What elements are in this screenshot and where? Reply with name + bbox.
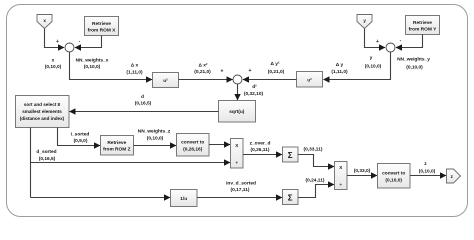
svg-text:(0,10,0): (0,10,0) xyxy=(406,64,423,70)
wire sort i_sorted to ROM Z xyxy=(58,128,101,146)
label d (0,16,5) xyxy=(135,94,152,107)
sum junction S1 xyxy=(65,43,74,52)
svg-text:Δ y: Δ y xyxy=(336,62,344,68)
svg-text:sort and select 8: sort and select 8 xyxy=(24,102,61,107)
wire U1 to sum junction S3 xyxy=(179,79,233,81)
label inv_d_sorted (0,17,11) xyxy=(226,180,256,193)
svg-text:(0,17,11): (0,17,11) xyxy=(231,187,250,193)
wire D1 to sum block SIG1 xyxy=(243,154,282,156)
svg-text:d²: d² xyxy=(252,84,257,90)
label delta x (1,11,0) xyxy=(126,63,143,76)
wire sort d_sorted vertical xyxy=(30,128,32,198)
svg-text:(0,33,0): (0,33,0) xyxy=(354,168,371,174)
svg-text:(0,16,5): (0,16,5) xyxy=(135,101,152,107)
wire SIG1 to divide block D2 xyxy=(298,155,334,167)
block reciprocal 1/u xyxy=(171,190,198,207)
sign plus S1 xyxy=(56,39,59,45)
svg-text:Σ: Σ xyxy=(288,151,293,160)
label z_over_d (0,26,11) xyxy=(250,140,271,153)
svg-text:Retrieve: Retrieve xyxy=(92,21,111,27)
sign minus S2 xyxy=(400,38,402,44)
label x (0,10,0) xyxy=(45,58,62,70)
svg-text:+: + xyxy=(221,68,224,74)
wire S3 to sqrt block xyxy=(237,84,239,100)
svg-text:i_sorted: i_sorted xyxy=(71,131,90,137)
wire ROM Y to sum junction S2 xyxy=(396,35,423,48)
label d^2 (0,32,10) xyxy=(244,84,264,97)
input port x xyxy=(37,15,52,29)
svg-text:(0,10,0): (0,10,0) xyxy=(84,64,101,70)
svg-text:(0,10,0): (0,10,0) xyxy=(365,64,382,70)
sum junction S2 xyxy=(386,43,395,52)
label i_sorted (0,9,0) xyxy=(71,131,90,144)
wire ROM Z to convert block C1 xyxy=(134,145,177,147)
label d_sorted (0,16,5) xyxy=(36,149,56,162)
input port y xyxy=(357,15,372,29)
svg-text:NN_weights_y: NN_weights_y xyxy=(397,56,430,62)
label delta x^2 (0,21,0) xyxy=(194,62,211,75)
sum block SIG1 xyxy=(283,147,299,162)
wire SIG2 to divide block D2 xyxy=(298,185,334,198)
svg-text:(0,24,11): (0,24,11) xyxy=(306,178,325,184)
label delta y (1,11,0) xyxy=(331,62,348,75)
svg-text:(0,26,16): (0,26,16) xyxy=(183,147,203,153)
svg-text:+: + xyxy=(249,68,252,74)
wire U2 to sum junction S3 xyxy=(243,79,297,81)
wire C1 to divide block D1 xyxy=(209,144,230,146)
svg-text:(0,10,0): (0,10,0) xyxy=(45,64,62,70)
svg-text:convert to: convert to xyxy=(382,171,405,177)
svg-text:Retrieve: Retrieve xyxy=(107,140,126,146)
svg-text:x: x xyxy=(52,58,55,63)
block ROM Z xyxy=(101,136,134,156)
svg-text:x: x xyxy=(43,18,46,23)
label (0,33,0) xyxy=(354,168,371,174)
block ROM Y xyxy=(406,16,440,35)
square block U2 u^2 xyxy=(297,72,323,88)
wire ROM X to sum junction S1 xyxy=(75,36,102,48)
svg-text:smallest elements: smallest elements xyxy=(22,109,62,114)
wire S2 to square block U2 xyxy=(324,52,391,80)
sign plus S3 left xyxy=(221,68,224,74)
label delta y^2 (0,21,0) xyxy=(268,61,285,75)
wire y port to sum junction S2 xyxy=(365,29,386,48)
label y (0,10,0) xyxy=(365,56,382,70)
svg-text:convert to: convert to xyxy=(181,140,204,146)
label z (0,10,0) xyxy=(419,162,436,175)
svg-text:+: + xyxy=(56,39,59,45)
svg-text:z_over_d: z_over_d xyxy=(250,140,271,146)
svg-text:Σ: Σ xyxy=(288,193,293,202)
wire S1 to square block U1 xyxy=(70,52,153,80)
sign minus S1 xyxy=(79,39,81,45)
divide block D1 xyxy=(231,139,244,169)
svg-text:(distance and index): (distance and index) xyxy=(20,116,65,121)
wire D2 to convert block C2 xyxy=(347,175,377,177)
wire reciprocal to sum block SIG2 xyxy=(197,197,282,199)
label (0,24,11) xyxy=(306,178,325,184)
svg-text:(0,10,0): (0,10,0) xyxy=(419,169,436,175)
svg-text:u²: u² xyxy=(163,78,168,84)
block ROM X xyxy=(85,17,119,36)
svg-text:(0,21,0): (0,21,0) xyxy=(194,69,211,75)
svg-text:from ROM Y: from ROM Y xyxy=(409,27,437,33)
label NN_weights_y (0,10,0) xyxy=(397,56,430,70)
svg-text:from ROM Z: from ROM Z xyxy=(103,147,131,153)
svg-text:d_sorted: d_sorted xyxy=(36,149,56,155)
svg-text:1/u: 1/u xyxy=(180,196,187,202)
svg-text:(1,11,0): (1,11,0) xyxy=(331,69,348,75)
wire C2 to output port z xyxy=(410,175,446,177)
svg-text:(0,33,11): (0,33,11) xyxy=(304,147,323,153)
wire sqrt to sort block xyxy=(70,111,219,113)
block sort and select xyxy=(16,96,70,128)
svg-text:y: y xyxy=(363,18,366,23)
svg-text:Retrieve: Retrieve xyxy=(413,20,432,26)
wire d_sorted to divide block D1 xyxy=(31,162,231,164)
svg-text:(0,21,0): (0,21,0) xyxy=(268,69,285,75)
output port z xyxy=(447,169,461,183)
block sqrt(u) xyxy=(219,101,256,123)
svg-text:Δ x²: Δ x² xyxy=(198,62,207,68)
svg-text:(0,26,11): (0,26,11) xyxy=(251,147,270,153)
svg-text:d: d xyxy=(141,94,144,100)
sign plus S2 xyxy=(376,39,379,45)
svg-text:y: y xyxy=(370,56,373,61)
block convert C2 xyxy=(378,164,411,189)
svg-text:NN_weights_x: NN_weights_x xyxy=(76,57,109,63)
svg-text:(0,9,0): (0,9,0) xyxy=(74,138,88,144)
sum junction S3 xyxy=(233,75,242,84)
svg-text:inv_d_sorted: inv_d_sorted xyxy=(226,180,256,186)
svg-text:Δ x: Δ x xyxy=(131,63,139,69)
label NN_weights_z (0,10,0) xyxy=(138,129,171,142)
label (0,33,11) xyxy=(304,147,323,153)
svg-text:(1,11,0): (1,11,0) xyxy=(126,69,143,75)
svg-text:(0,10,0): (0,10,0) xyxy=(385,178,402,184)
svg-text:sqrt(u): sqrt(u) xyxy=(229,109,245,115)
svg-text:Δ y²: Δ y² xyxy=(270,61,279,67)
sum block SIG2 xyxy=(283,190,299,205)
svg-text:+: + xyxy=(376,39,379,45)
svg-text:NN_weights_z: NN_weights_z xyxy=(138,129,171,135)
svg-text:(0,32,10): (0,32,10) xyxy=(244,91,264,97)
divide block D2 xyxy=(335,162,348,190)
svg-text:from ROM X: from ROM X xyxy=(88,28,117,34)
wire d_sorted to reciprocal block xyxy=(31,197,171,199)
svg-text:(0,10,0): (0,10,0) xyxy=(147,135,164,141)
square block U1 u^2 xyxy=(153,73,179,88)
svg-text:(0,16,5): (0,16,5) xyxy=(39,156,56,162)
sign plus S3 right xyxy=(249,68,252,74)
svg-text:u²: u² xyxy=(307,77,312,83)
wire x port to sum junction S1 xyxy=(45,29,65,48)
block convert C1 xyxy=(177,134,210,157)
label NN_weights_x (0,10,0) xyxy=(76,57,109,70)
